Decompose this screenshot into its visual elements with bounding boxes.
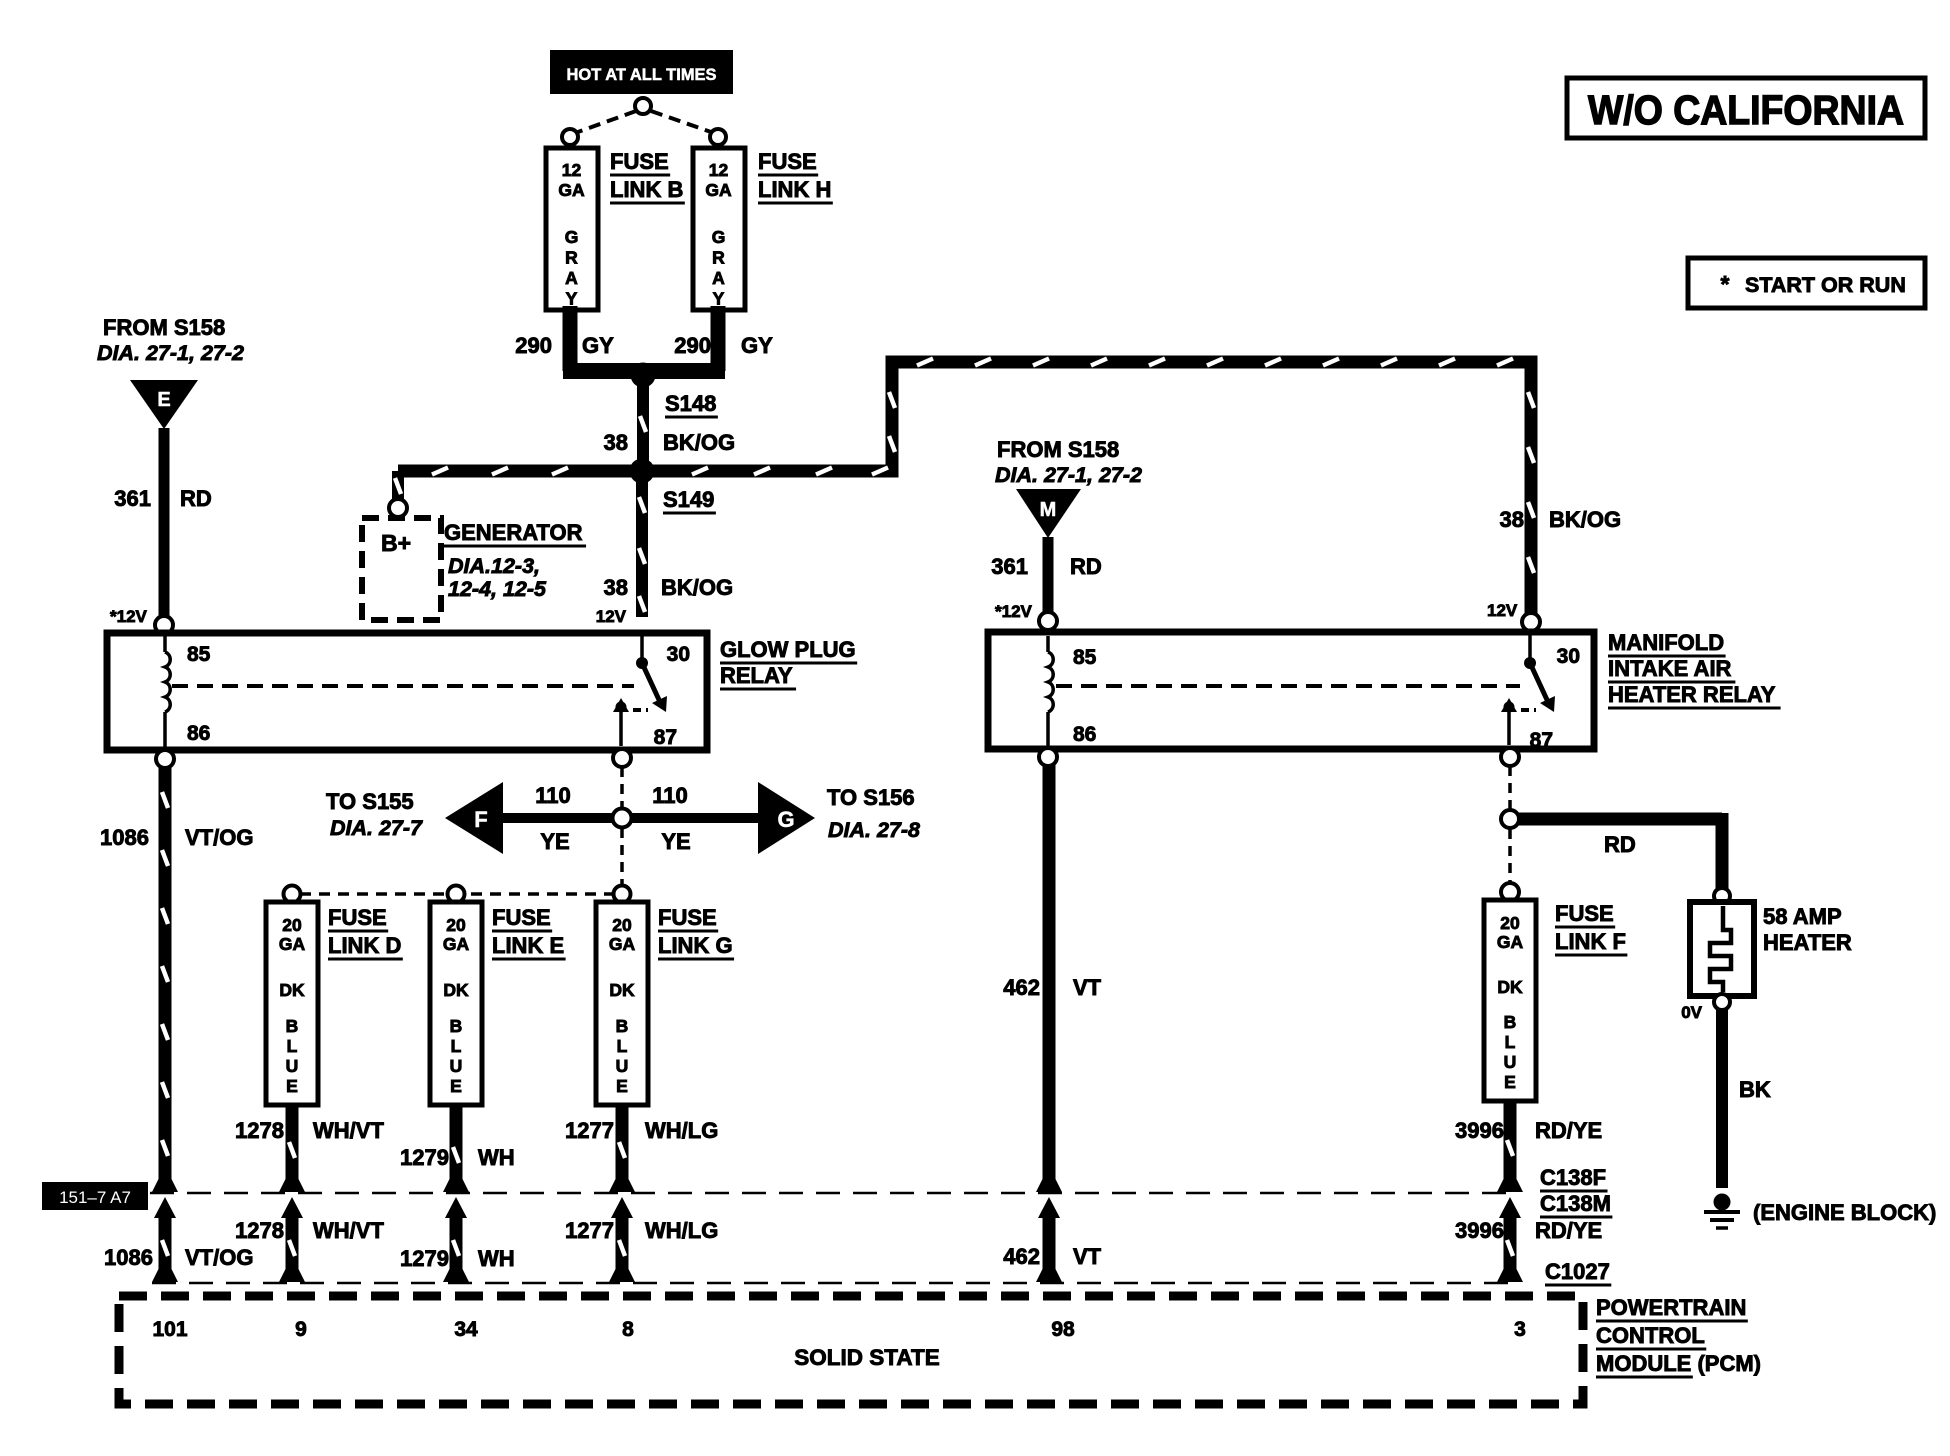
svg-text:151–7 A7: 151–7 A7 (59, 1188, 131, 1207)
svg-text:290: 290 (674, 333, 711, 358)
svg-text:BK/OG: BK/OG (1549, 507, 1621, 532)
svg-text:L: L (1505, 1032, 1516, 1052)
svg-text:1277: 1277 (565, 1218, 614, 1243)
svg-text:1086: 1086 (104, 1245, 153, 1270)
svg-text:C138F: C138F (1540, 1165, 1606, 1190)
svg-text:LINK E: LINK E (492, 933, 564, 958)
svg-text:RD/YE: RD/YE (1535, 1118, 1602, 1143)
svg-text:38: 38 (604, 575, 628, 600)
svg-text:58 AMP: 58 AMP (1763, 904, 1842, 929)
svg-text:RELAY: RELAY (720, 663, 793, 688)
svg-text:101: 101 (152, 1318, 187, 1341)
svg-text:12V: 12V (1487, 601, 1518, 620)
svg-text:MODULE (PCM): MODULE (PCM) (1596, 1351, 1761, 1376)
svg-text:BK: BK (1739, 1077, 1771, 1102)
svg-text:L: L (617, 1036, 628, 1056)
svg-text:361: 361 (114, 486, 151, 511)
svg-text:FROM S158: FROM S158 (997, 437, 1119, 462)
svg-text:20: 20 (282, 915, 302, 935)
svg-text:BK/OG: BK/OG (663, 430, 735, 455)
svg-text:C1027: C1027 (1545, 1259, 1610, 1284)
svg-text:1279: 1279 (400, 1246, 449, 1271)
svg-text:S148: S148 (665, 391, 716, 416)
svg-text:GA: GA (443, 934, 470, 954)
svg-text:L: L (287, 1036, 298, 1056)
svg-text:87: 87 (1530, 729, 1553, 752)
svg-text:WH/VT: WH/VT (313, 1218, 384, 1243)
svg-text:20: 20 (1500, 913, 1520, 933)
svg-text:VT/OG: VT/OG (185, 825, 253, 850)
svg-text:1277: 1277 (565, 1118, 614, 1143)
svg-text:S149: S149 (663, 487, 714, 512)
svg-text:A: A (712, 268, 725, 288)
svg-text:30: 30 (1557, 645, 1580, 668)
svg-text:B: B (286, 1016, 299, 1036)
svg-text:FUSE: FUSE (610, 149, 669, 174)
svg-text:3996: 3996 (1455, 1218, 1504, 1243)
svg-text:U: U (1504, 1052, 1517, 1072)
svg-text:TO S156: TO S156 (827, 785, 915, 810)
svg-text:GY: GY (582, 333, 614, 358)
svg-text:1086: 1086 (100, 825, 149, 850)
svg-text:WH: WH (478, 1246, 515, 1271)
svg-text:DK: DK (443, 980, 469, 1000)
svg-text:1279: 1279 (400, 1145, 449, 1170)
svg-text:WH/VT: WH/VT (313, 1118, 384, 1143)
svg-text:YE: YE (540, 829, 569, 854)
svg-text:RD: RD (1604, 832, 1636, 857)
svg-text:RD: RD (1070, 554, 1102, 579)
svg-text:C138M: C138M (1540, 1191, 1611, 1216)
svg-text:110: 110 (535, 783, 571, 808)
svg-text:*12V: *12V (110, 607, 148, 626)
svg-text:B+: B+ (381, 530, 411, 556)
svg-text:20: 20 (446, 915, 466, 935)
svg-text:(ENGINE BLOCK): (ENGINE BLOCK) (1753, 1200, 1936, 1225)
svg-text:Y: Y (713, 289, 725, 309)
svg-text:GA: GA (1497, 932, 1524, 952)
svg-text:HOT AT ALL TIMES: HOT AT ALL TIMES (567, 66, 717, 84)
svg-text:LINK G: LINK G (658, 933, 733, 958)
svg-text:E: E (157, 389, 170, 411)
svg-text:GA: GA (609, 934, 636, 954)
svg-text:12-4, 12-5: 12-4, 12-5 (448, 577, 547, 601)
svg-text:*: * (1721, 271, 1730, 297)
svg-text:R: R (712, 248, 725, 268)
svg-text:HEATER: HEATER (1763, 930, 1852, 955)
svg-text:CONTROL: CONTROL (1596, 1323, 1705, 1348)
svg-text:12: 12 (562, 160, 582, 180)
svg-text:LINK B: LINK B (610, 177, 683, 202)
svg-text:86: 86 (187, 722, 210, 745)
svg-text:Y: Y (566, 289, 578, 309)
svg-text:DIA. 27-8: DIA. 27-8 (828, 818, 920, 842)
svg-text:FUSE: FUSE (658, 905, 717, 930)
svg-text:A: A (565, 268, 578, 288)
svg-text:290: 290 (515, 333, 552, 358)
svg-text:W/O CALIFORNIA: W/O CALIFORNIA (1588, 87, 1904, 133)
svg-text:M: M (1040, 499, 1057, 521)
svg-text:DIA.12-3,: DIA.12-3, (448, 554, 540, 578)
svg-text:DIA. 27-7: DIA. 27-7 (330, 816, 423, 840)
svg-text:U: U (286, 1056, 299, 1076)
svg-text:RD: RD (180, 486, 212, 511)
svg-text:GA: GA (558, 180, 585, 200)
svg-text:FUSE: FUSE (758, 149, 817, 174)
svg-text:BK/OG: BK/OG (661, 575, 733, 600)
svg-text:30: 30 (667, 643, 690, 666)
svg-text:FUSE: FUSE (492, 905, 551, 930)
svg-text:GENERATOR: GENERATOR (444, 520, 583, 545)
svg-text:DK: DK (609, 980, 635, 1000)
svg-text:FUSE: FUSE (328, 905, 387, 930)
svg-text:B: B (450, 1016, 463, 1036)
svg-text:12: 12 (709, 160, 729, 180)
svg-text:0V: 0V (1681, 1003, 1702, 1022)
svg-text:VT: VT (1073, 975, 1102, 1000)
svg-text:DIA. 27-1, 27-2: DIA. 27-1, 27-2 (97, 341, 244, 365)
svg-text:8: 8 (622, 1318, 634, 1341)
svg-text:WH: WH (478, 1145, 515, 1170)
svg-text:110: 110 (652, 783, 688, 808)
svg-text:38: 38 (1500, 507, 1524, 532)
svg-text:E: E (1504, 1072, 1516, 1092)
svg-text:E: E (616, 1076, 628, 1096)
svg-text:GA: GA (279, 934, 306, 954)
svg-text:F: F (474, 807, 487, 832)
svg-text:L: L (451, 1036, 462, 1056)
svg-text:12V: 12V (596, 607, 627, 626)
svg-text:POWERTRAIN: POWERTRAIN (1596, 1295, 1746, 1320)
svg-text:38: 38 (604, 430, 628, 455)
svg-text:9: 9 (295, 1318, 307, 1341)
svg-text:34: 34 (454, 1318, 478, 1341)
svg-text:YE: YE (661, 829, 690, 854)
svg-text:LINK F: LINK F (1555, 929, 1626, 954)
svg-text:G: G (565, 227, 579, 247)
svg-text:U: U (450, 1056, 463, 1076)
svg-text:86: 86 (1073, 723, 1096, 746)
svg-text:WH/LG: WH/LG (645, 1118, 718, 1143)
svg-text:START OR RUN: START OR RUN (1745, 273, 1906, 297)
svg-text:GLOW PLUG: GLOW PLUG (720, 637, 856, 662)
svg-text:R: R (565, 248, 578, 268)
svg-text:B: B (616, 1016, 629, 1036)
svg-text:TO S155: TO S155 (326, 789, 414, 814)
svg-text:DK: DK (1497, 977, 1523, 997)
svg-text:MANIFOLD: MANIFOLD (1608, 630, 1724, 655)
svg-text:G: G (712, 227, 726, 247)
svg-text:DIA. 27-1, 27-2: DIA. 27-1, 27-2 (995, 463, 1142, 487)
svg-text:U: U (616, 1056, 629, 1076)
svg-text:E: E (450, 1076, 462, 1096)
svg-text:RD/YE: RD/YE (1535, 1218, 1602, 1243)
svg-text:85: 85 (187, 643, 211, 666)
svg-text:WH/LG: WH/LG (645, 1218, 718, 1243)
svg-text:SOLID STATE: SOLID STATE (794, 1345, 939, 1370)
svg-text:85: 85 (1073, 646, 1097, 669)
svg-text:1278: 1278 (235, 1218, 284, 1243)
svg-text:VT: VT (1073, 1244, 1102, 1269)
svg-text:462: 462 (1003, 975, 1040, 1000)
svg-text:3: 3 (1514, 1318, 1526, 1341)
svg-text:DK: DK (279, 980, 305, 1000)
svg-text:GA: GA (705, 180, 732, 200)
svg-text:LINK H: LINK H (758, 177, 831, 202)
svg-text:FROM S158: FROM S158 (103, 315, 225, 340)
svg-text:G: G (777, 807, 794, 832)
svg-text:VT/OG: VT/OG (185, 1245, 253, 1270)
svg-text:*12V: *12V (995, 602, 1033, 621)
svg-text:HEATER RELAY: HEATER RELAY (1608, 682, 1776, 707)
svg-text:GY: GY (741, 333, 773, 358)
svg-text:INTAKE AIR: INTAKE AIR (1608, 656, 1732, 681)
svg-text:LINK D: LINK D (328, 933, 401, 958)
svg-text:B: B (1504, 1012, 1517, 1032)
svg-text:98: 98 (1051, 1318, 1075, 1341)
svg-text:361: 361 (991, 554, 1028, 579)
svg-text:FUSE: FUSE (1555, 901, 1614, 926)
svg-text:87: 87 (654, 726, 677, 749)
svg-text:3996: 3996 (1455, 1118, 1504, 1143)
svg-text:20: 20 (612, 915, 632, 935)
svg-text:1278: 1278 (235, 1118, 284, 1143)
svg-text:E: E (286, 1076, 298, 1096)
svg-text:462: 462 (1003, 1244, 1040, 1269)
